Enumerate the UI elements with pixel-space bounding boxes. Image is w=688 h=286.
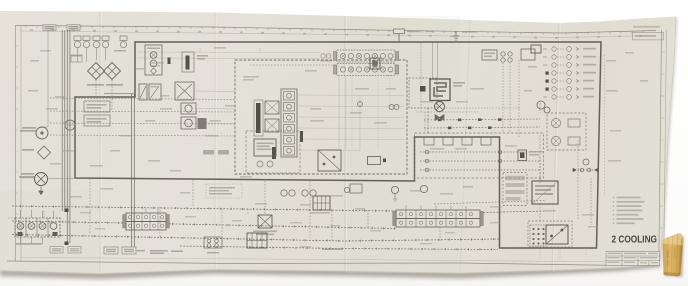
manifold labels — [16, 243, 42, 245]
junction marks (left of strips) — [320, 54, 332, 61]
heater grid component — [247, 233, 267, 248]
connector J2 stubs — [406, 205, 466, 210]
pump labels — [20, 127, 36, 151]
coolant pump P1 (circle) — [36, 127, 48, 139]
wire: bus C (chain line) — [12, 235, 499, 242]
svg-text:2 COOLING: 2 COOLING — [612, 234, 658, 245]
small circle component 2 — [420, 185, 427, 192]
border frame: right double border with ticks — [659, 30, 667, 265]
wire: sensors drop lines — [416, 43, 520, 137]
junction box (top, small dark) — [370, 58, 380, 69]
fan motor M1 — [435, 102, 445, 112]
flag labels bottom-left pair — [50, 247, 81, 254]
dotted connector with arrows — [572, 168, 599, 172]
distribution dotted rows — [420, 152, 540, 170]
wire: top manifold runs — [137, 47, 320, 59]
wire: bus B (chain line) — [12, 221, 396, 229]
node: pipe junction lower — [65, 242, 69, 246]
check valve CV1 (diamond) — [88, 63, 105, 80]
wire: bus A (chain line) — [12, 206, 545, 213]
indicator light pair — [537, 101, 550, 113]
border frame: top ruler line with ticks — [15, 26, 656, 34]
relay module mid (X box) — [258, 215, 272, 228]
header figure text (top right) — [633, 26, 664, 40]
manifold stubs — [8, 210, 54, 244]
bleed valve V4 — [102, 36, 109, 48]
wire: dotted feeder lower right — [434, 201, 545, 205]
wires: relay outputs — [297, 95, 404, 151]
connector strip J1 (double row) — [123, 213, 169, 230]
28V DC bus flag — [394, 29, 435, 43]
bottom-left manifold assembly — [15, 218, 60, 237]
circulation pump P2 — [35, 173, 48, 195]
tab body — [662, 233, 683, 276]
blower assembly (dashed) in inner box — [246, 131, 300, 173]
flag label A/C pump — [104, 247, 136, 254]
sensor circle right — [583, 159, 589, 165]
connector strip J2 (long, double row) — [393, 210, 483, 227]
sensor circle pair — [389, 105, 399, 110]
wire: left supply pipe — [42, 30, 48, 127]
sensor circles — [501, 52, 512, 62]
border frame: left border ticks — [15, 46, 17, 235]
sensor bar mid (black) — [300, 131, 303, 142]
circle pairs below inner box — [281, 190, 316, 196]
labeled box with dot — [368, 157, 387, 165]
wire: pump supply double line — [132, 94, 135, 248]
wire: bus D (chain line right) — [180, 246, 498, 250]
inner equipment box (center) — [235, 60, 407, 174]
tab shadow — [664, 236, 684, 277]
check valve labels — [87, 84, 123, 86]
sensor bar lower (black) — [272, 147, 276, 159]
relay column module — [281, 89, 297, 157]
wire: duct into HX — [433, 43, 438, 80]
motor circle below thick line — [391, 186, 398, 201]
wire: pump feed — [21, 177, 35, 179]
wire: inner box dotted columns — [352, 66, 390, 150]
border frame: inner top line — [21, 31, 656, 38]
tab stamp marks — [667, 248, 676, 265]
dotted label box below thick line — [206, 184, 242, 198]
temp controller box — [482, 50, 497, 60]
flag label RH ENG — [67, 25, 80, 243]
feeder rows with splice blocks — [424, 119, 540, 128]
relief valve (diamond) — [38, 146, 51, 159]
node: pipe junction upper — [65, 209, 69, 213]
check valve CV2 (diamond) — [104, 63, 121, 80]
valve labels — [71, 50, 126, 57]
gauge G1 (needle) — [139, 84, 147, 100]
relay stack (dashed) — [503, 173, 527, 206]
heat exchanger HX1 — [430, 79, 450, 101]
border frame: ruler tick marks — [26, 26, 643, 35]
valve (bowtie) below fan — [435, 115, 444, 121]
border frame: bottom border — [7, 261, 659, 265]
wire: dotted drop in refrig box — [540, 100, 591, 225]
bleed valve V1 — [74, 36, 81, 48]
wires: gauges to inner box — [194, 91, 236, 124]
fold creases — [0, 12, 560, 275]
sensor bar (black) — [168, 58, 171, 65]
thermostat box (dashed) right — [547, 113, 586, 150]
gauge G3 (X meter) — [175, 82, 194, 100]
scattered tiny labels — [28, 47, 648, 247]
solenoid valve unit — [145, 45, 162, 75]
tab top light zone — [662, 233, 683, 245]
breaker box (right column top) — [531, 45, 541, 53]
wire: stubs below refrig box — [540, 248, 586, 259]
flag label LH ENG — [43, 25, 65, 211]
bleed valve V5 — [120, 36, 127, 48]
pressure switch box — [71, 55, 82, 62]
contactor K2 — [265, 119, 279, 132]
ruler reference numbers — [30, 29, 642, 39]
tab bottom rim — [664, 272, 681, 276]
relay bar (black) in inner box — [254, 100, 263, 136]
paper drop shadow — [0, 265, 662, 280]
bleed valve V3 — [93, 36, 100, 48]
title block — [606, 252, 660, 266]
aux relay box top — [521, 49, 535, 60]
tab right shade — [680, 239, 682, 275]
wire: dotted control lines left — [50, 48, 234, 136]
condenser fan (dashed, dotted grid) — [528, 221, 572, 247]
notes list — [613, 197, 645, 225]
distribution contents: small modules — [424, 137, 491, 145]
flag labels mid-left — [203, 150, 229, 155]
tab vertical streaks — [667, 234, 678, 276]
wire: dotted vertical right of box — [604, 55, 606, 196]
refrig fan motor (dark) — [518, 150, 543, 161]
control boxes left — [84, 101, 110, 126]
gauge G2 (needle) — [149, 84, 161, 100]
mode valve box (dashed) — [409, 78, 437, 108]
outer system boundary (thick stepped box) — [75, 42, 601, 248]
condenser box with diagonal — [546, 225, 568, 244]
breaker row labels — [583, 48, 596, 98]
circuit breaker rows — [543, 47, 579, 100]
contactor K1 — [265, 101, 279, 114]
ground symbol top center — [453, 31, 476, 40]
distribution box (dashed) — [415, 133, 544, 178]
control module (lower, in inner box) — [318, 150, 341, 171]
gauge G4 — [181, 103, 196, 114]
temperature gauge G0 — [65, 120, 75, 130]
terminal strip TB2 — [334, 64, 399, 76]
aux component (circles block) — [204, 237, 222, 248]
bleed valve V2 — [83, 36, 90, 48]
gauge G5 with dark meter — [181, 117, 207, 129]
reservoir indicator (black bar box) — [182, 52, 208, 72]
sensor circle small — [358, 102, 363, 107]
wire: vertical drops in inner box — [339, 76, 360, 151]
wire: vertical dotted drops center — [90, 157, 540, 242]
wire: chain into strips — [250, 64, 337, 66]
border frame: left double border — [15, 26, 21, 262]
terminal strip TB1 — [334, 50, 399, 62]
connector J1 stubs — [134, 209, 158, 214]
wire: manifold line — [104, 93, 135, 95]
compressor box — [532, 181, 558, 204]
evap fan control box — [313, 196, 330, 210]
small box below thick line 1 — [344, 184, 362, 193]
tab — [662, 233, 684, 277]
